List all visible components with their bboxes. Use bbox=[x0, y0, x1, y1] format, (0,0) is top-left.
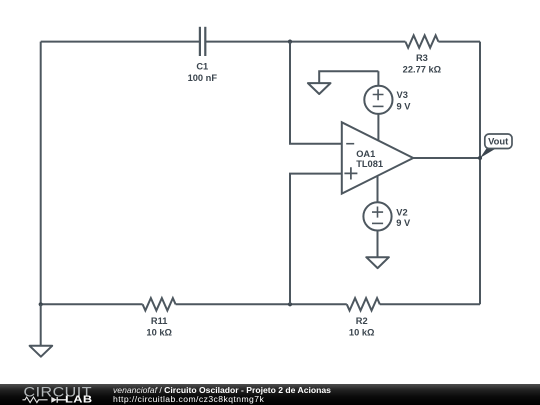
svg-text:9 V: 9 V bbox=[397, 102, 412, 112]
footer bar bbox=[0, 384, 540, 405]
node junction bottom-left bbox=[39, 302, 43, 306]
wire R11 to R2 bbox=[176, 303, 347, 305]
svg-text:R3: R3 bbox=[416, 53, 428, 63]
wire op-amp output bbox=[413, 157, 480, 159]
wire R3 to corner bbox=[438, 41, 480, 43]
wire V3 to op-amp bbox=[377, 113, 379, 140]
svg-text:V2: V2 bbox=[396, 207, 407, 217]
svg-text:OA1: OA1 bbox=[356, 149, 375, 159]
voltage source V3 bbox=[364, 71, 411, 114]
wire cap to R3 bbox=[206, 41, 406, 43]
svg-text:R11: R11 bbox=[151, 316, 168, 326]
svg-text:10 kΩ: 10 kΩ bbox=[349, 327, 375, 337]
wire non-inverting input to bottom bbox=[290, 174, 342, 305]
svg-text:10 kΩ: 10 kΩ bbox=[146, 327, 172, 337]
svg-text:V3: V3 bbox=[397, 90, 408, 100]
node output junction bbox=[478, 156, 482, 160]
node junction bottom-mid bbox=[288, 302, 292, 306]
wire top-left horizontal bbox=[41, 41, 200, 43]
CircuitLab logo bbox=[0, 384, 100, 405]
svg-text:TL081: TL081 bbox=[356, 159, 383, 169]
Vout flag bbox=[480, 134, 512, 158]
ground (upper, V3) bbox=[308, 71, 379, 94]
resistor R11 bbox=[143, 298, 176, 337]
wire left vertical bbox=[40, 42, 42, 305]
svg-text:100 nF: 100 nF bbox=[188, 73, 218, 83]
svg-text:22.77 kΩ: 22.77 kΩ bbox=[403, 65, 442, 75]
resistor R3 bbox=[403, 35, 442, 74]
wire bottom left bbox=[41, 303, 143, 305]
ground (bottom-left) bbox=[30, 304, 53, 356]
node junction top bbox=[288, 40, 292, 44]
capacitor C1 bbox=[188, 27, 218, 83]
svg-text:Vout: Vout bbox=[488, 136, 508, 147]
wire R2 to corner bbox=[380, 303, 480, 305]
svg-text:R2: R2 bbox=[356, 316, 368, 326]
wire mid vertical to inverting input bbox=[290, 42, 342, 144]
svg-text:LAB: LAB bbox=[65, 395, 93, 405]
ground (lower, V2) bbox=[366, 230, 389, 268]
svg-text:C1: C1 bbox=[196, 61, 208, 71]
voltage source V2 bbox=[363, 176, 411, 231]
svg-text:9 V: 9 V bbox=[396, 218, 411, 228]
wire right vertical bbox=[479, 42, 481, 305]
op-amp OA1 bbox=[342, 122, 413, 193]
resistor R2 bbox=[347, 298, 380, 337]
